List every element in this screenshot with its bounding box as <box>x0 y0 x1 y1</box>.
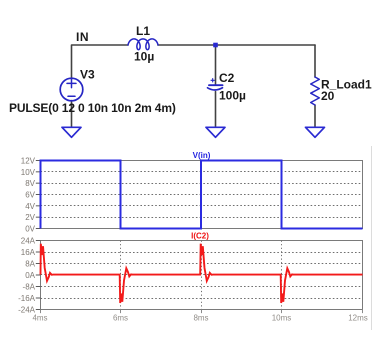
wire: V3 bottom down to ground <box>71 101 73 128</box>
svg-text:12ms: 12ms <box>348 313 368 322</box>
svg-text:4V: 4V <box>25 202 35 211</box>
wire: V3 top up to node IN corner and right to L1 <box>72 45 129 79</box>
svg-text:8A: 8A <box>25 260 35 269</box>
x-axis ticks <box>41 310 363 314</box>
capacitor C2 polarity plus mark <box>211 79 215 82</box>
svg-text:10µ: 10µ <box>134 50 154 64</box>
wire: R_Load1 bottom down to ground <box>314 105 316 127</box>
capacitor C2 curved bottom plate <box>208 88 223 90</box>
svg-text:PULSE(0 12 0 10n 10n 2m 4m): PULSE(0 12 0 10n 10n 2m 4m) <box>9 101 176 115</box>
svg-text:V3: V3 <box>80 67 95 81</box>
ground symbol under C2 <box>206 127 225 137</box>
svg-text:4ms: 4ms <box>32 313 47 322</box>
svg-text:C2: C2 <box>219 71 235 85</box>
V3 minus sign <box>68 95 75 97</box>
svg-text:I(C2): I(C2) <box>191 232 209 241</box>
svg-text:IN: IN <box>76 30 89 44</box>
wire: C2 bottom plate down to ground <box>215 92 217 128</box>
faint pane edge line <box>371 146 373 330</box>
svg-text:L1: L1 <box>136 24 150 38</box>
svg-text:20: 20 <box>321 89 335 103</box>
voltage source V3 circle <box>60 78 83 101</box>
plot1 frame <box>41 161 363 229</box>
plot1 horizontal gridlines <box>41 172 363 218</box>
plot2 vertical gridlines <box>121 241 282 310</box>
svg-text:24A: 24A <box>21 237 36 246</box>
V(in) trace <box>41 161 363 229</box>
wire: L1 right end to R_Load1 top corner <box>158 44 315 46</box>
svg-text:10V: 10V <box>21 168 36 177</box>
resistor R_Load1 zigzag <box>311 77 320 105</box>
ground symbol under V3 <box>62 127 81 137</box>
svg-text:0A: 0A <box>25 271 35 280</box>
svg-text:10ms: 10ms <box>272 313 292 322</box>
wire: R_Load1 top vertical <box>314 45 316 77</box>
svg-text:V(in): V(in) <box>193 151 211 160</box>
svg-text:-8A: -8A <box>23 283 36 292</box>
node junction square on IN net <box>213 43 218 48</box>
inductor L1 coil <box>128 39 158 50</box>
svg-text:6ms: 6ms <box>113 313 128 322</box>
ground symbol under R_Load1 <box>306 127 325 137</box>
svg-text:-16A: -16A <box>18 294 36 303</box>
plot2 horizontal gridlines <box>41 253 363 299</box>
plot1 y-axis ticks <box>36 161 41 229</box>
capacitor C2 straight top plate <box>209 84 223 86</box>
I(C2) trace <box>41 244 363 303</box>
svg-text:0V: 0V <box>25 225 35 234</box>
svg-text:6V: 6V <box>25 191 35 200</box>
svg-text:12V: 12V <box>21 157 36 166</box>
V3 plus sign <box>67 79 76 87</box>
plot2 y-axis ticks <box>36 241 41 310</box>
svg-text:100µ: 100µ <box>219 88 246 102</box>
svg-text:16A: 16A <box>21 248 36 257</box>
wire: junction down to C2 top plate <box>215 45 217 84</box>
svg-text:8ms: 8ms <box>193 313 208 322</box>
plot1 vertical gridlines <box>121 161 282 229</box>
svg-text:2V: 2V <box>25 213 35 222</box>
svg-text:8V: 8V <box>25 179 35 188</box>
plot2 frame <box>41 241 363 310</box>
